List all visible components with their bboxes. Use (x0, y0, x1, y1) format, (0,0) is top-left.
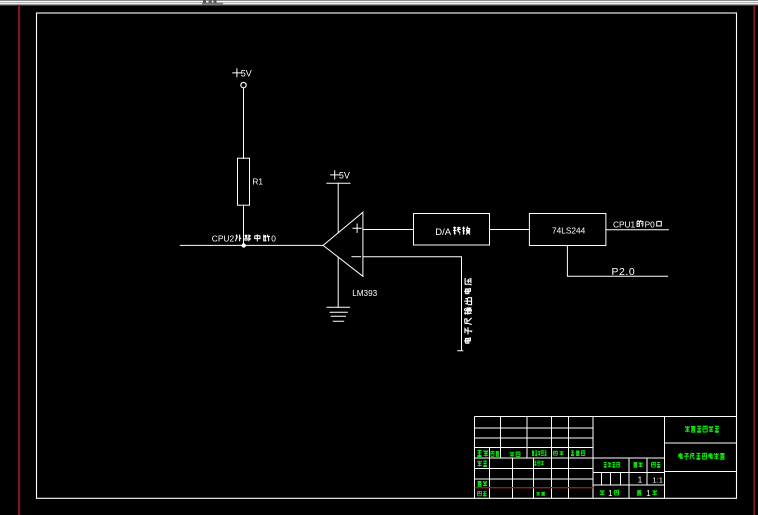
row: designer / standardization (478, 461, 487, 467)
wire D/A to 74LS244 (490, 229, 530, 231)
svg-text:D/A: D/A (435, 227, 452, 238)
svg-text:5V: 5V (339, 170, 350, 180)
wire R1 bottom to node (243, 205, 245, 245)
red revision line in title block (475, 487, 594, 488)
svg-text:1:1: 1:1 (652, 475, 663, 484)
op-amp minus input marker (352, 256, 361, 258)
power +5V symbol (top, above R1) (233, 69, 241, 77)
window chrome strip top (0, 0, 758, 6)
schematic wires and symbols group (180, 69, 668, 351)
svg-text:1: 1 (608, 489, 612, 498)
row: checker (478, 481, 488, 486)
op-amp U1 LM393 triangle (323, 212, 363, 276)
svg-text:P0: P0 (645, 219, 656, 229)
vertical label: electronic ruler output voltage (464, 278, 472, 343)
wire 74LS244 to CPU1 P0 port (606, 229, 669, 231)
block D/A converter (414, 214, 490, 246)
school name: Qingdao Binhai College (685, 426, 719, 432)
svg-text:P2.0: P2.0 (612, 267, 636, 278)
right red margin line (753, 5, 755, 515)
svg-text:1: 1 (646, 489, 650, 498)
stage mark / quantity / scale headers (604, 462, 620, 467)
+5V rail bar (327, 182, 350, 184)
ground symbol (327, 307, 350, 321)
wire op-amp bottom edge to ground (337, 257, 339, 307)
drawing title: electronic ruler hardware circuit diagram (679, 453, 725, 459)
wire op-amp minus input feedback (363, 257, 463, 351)
wire op-amp plus input to D/A box (363, 229, 414, 231)
svg-text:CPU1: CPU1 (613, 219, 636, 229)
sheet count: total 1 sheet (600, 490, 604, 495)
terminal circle node (241, 82, 246, 87)
wire 74LS244 bottom to P2.0 (567, 246, 667, 277)
svg-text:5V: 5V (241, 68, 252, 78)
node junction dot (242, 243, 246, 247)
power +5V symbol (op-amp supply) (331, 171, 339, 179)
sheet number: sheet 1 (637, 491, 641, 496)
svg-text:LM393: LM393 (352, 289, 377, 298)
svg-text:0: 0 (271, 234, 276, 244)
block 74LS244 buffer (529, 214, 606, 246)
svg-text:1: 1 (638, 474, 643, 484)
svg-text:CPU2: CPU2 (212, 234, 235, 244)
svg-text:74LS244: 74LS244 (552, 226, 586, 236)
resistor R1 (238, 158, 250, 205)
row: process / approver (478, 492, 487, 496)
wire CPU2 interrupt input (horizontal) (180, 244, 323, 246)
svg-text:R1: R1 (253, 177, 264, 186)
wire +5V rail to op-amp top edge (337, 183, 339, 233)
title block (475, 417, 738, 499)
wire +5V terminal to R1 top (243, 88, 245, 158)
op-amp plus input marker (353, 224, 361, 232)
title block header labels row (477, 450, 488, 456)
left red margin line (18, 5, 20, 515)
